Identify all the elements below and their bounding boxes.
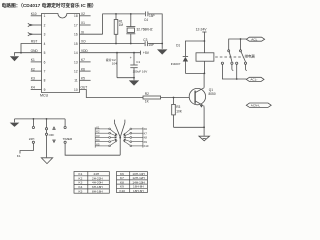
svg-text:18: 18	[74, 14, 78, 18]
relay K1 coil	[196, 53, 214, 61]
switch position 24H	[32, 119, 34, 127]
svg-text:K7: K7	[144, 131, 148, 135]
capacitor C2 branch	[116, 53, 118, 78]
pin 9 wire K4	[31, 89, 42, 91]
wire D1 branch bottom	[185, 72, 204, 74]
table 1	[74, 172, 109, 194]
node crystal top	[130, 13, 132, 15]
wire C2-C1 bottom	[117, 77, 134, 79]
svg-text:OFF: OFF	[49, 133, 55, 137]
svg-text:13: 13	[74, 60, 78, 64]
pin 2 wire (n.c.)	[31, 24, 42, 26]
svg-text:K10: K10	[144, 144, 149, 148]
svg-text:K2: K2	[96, 130, 100, 134]
svg-text:R2: R2	[145, 92, 149, 96]
input arrow pin2	[28, 23, 31, 26]
node base-R3	[173, 97, 175, 99]
ground (GND pin)	[10, 56, 19, 61]
svg-text:ACL: ACL	[251, 37, 257, 41]
svg-text:电路图：（CD4017 电源定时可变音乐 IC 图）: 电路图：（CD4017 电源定时可变音乐 IC 图）	[2, 2, 97, 9]
pin 3 wire (n.c.)	[31, 33, 42, 35]
contact terminals	[221, 62, 223, 64]
pin 1 wire K10	[31, 15, 42, 17]
svg-text:XI: XI	[81, 30, 84, 34]
svg-text:1M: 1M	[119, 23, 124, 27]
pin numbers right 18-10	[74, 14, 78, 92]
svg-text:18H-6H: 18H-6H	[133, 189, 144, 193]
node VDD-C1	[133, 52, 135, 54]
svg-text:C1: C1	[136, 60, 140, 64]
svg-text:D1: D1	[176, 43, 180, 47]
svg-text:K10: K10	[31, 12, 37, 16]
svg-text:K1: K1	[79, 172, 83, 176]
pin 4 wire RST	[21, 44, 42, 53]
svg-text:MCU: MCU	[40, 93, 49, 97]
svg-text:1K: 1K	[145, 100, 150, 104]
pin 10 wire OUT	[80, 90, 144, 98]
resistor R2	[143, 96, 161, 99]
capacitor C4	[145, 12, 148, 17]
diode D1 IN4007	[183, 56, 188, 58]
svg-text:K3: K3	[31, 77, 35, 81]
svg-text:C4: C4	[144, 18, 148, 22]
contact pole 2	[240, 39, 242, 50]
svg-text:16: 16	[74, 33, 78, 37]
svg-text:5: 5	[44, 51, 46, 55]
relay dashed link	[215, 56, 243, 58]
svg-text:K6: K6	[144, 127, 148, 131]
power +5V	[140, 51, 142, 55]
svg-text:K7: K7	[81, 58, 85, 62]
svg-text:15: 15	[74, 42, 78, 46]
svg-text:K8: K8	[144, 136, 148, 140]
svg-text:TIMER: TIMER	[63, 137, 73, 141]
svg-text:VDD: VDD	[81, 49, 88, 53]
svg-text:K1: K1	[31, 58, 35, 62]
svg-text:3: 3	[44, 33, 46, 37]
svg-text:RST: RST	[31, 40, 37, 44]
svg-text:K3: K3	[96, 134, 100, 138]
rotary right contacts K6-K10	[123, 127, 143, 147]
node mode OFF	[46, 118, 48, 120]
wire contact outputs	[222, 64, 246, 79]
wire D1 branch top	[185, 41, 204, 56]
svg-text:K2: K2	[31, 67, 35, 71]
transistor Q1 8050	[189, 88, 205, 104]
node C3-rail	[161, 43, 163, 45]
port ACN-L	[246, 103, 271, 107]
svg-text:C3: C3	[143, 38, 147, 42]
svg-text:X2: X2	[81, 12, 85, 16]
pin 17 wire X1	[80, 24, 91, 26]
node R1 top	[115, 13, 117, 15]
pin 13 wire K7	[80, 61, 91, 63]
svg-text:14: 14	[74, 51, 78, 55]
pin 18 wire X2	[80, 15, 91, 17]
wire top to ground rail	[148, 14, 162, 49]
hook terminal 2	[246, 64, 247, 70]
ground (decoupling)	[129, 80, 139, 85]
pin 8 wire K3	[31, 79, 42, 81]
svg-text:10K: 10K	[176, 109, 183, 113]
wire XI riser	[103, 14, 145, 34]
pin 14 wire VDD	[80, 52, 141, 54]
svg-text:100uF 16V: 100uF 16V	[133, 69, 148, 73]
svg-text:ACN-L: ACN-L	[251, 104, 261, 108]
switch position OFF	[46, 119, 48, 128]
pin 11 wire K5	[80, 79, 91, 81]
svg-text:+: +	[130, 56, 132, 60]
node VDD-C2	[116, 52, 118, 54]
svg-text:11: 11	[74, 79, 78, 83]
svg-text:K1: K1	[96, 125, 100, 129]
pin 12 wire K6	[80, 70, 91, 72]
ground (OFF position)	[41, 158, 52, 164]
svg-text:ACL-: ACL-	[250, 78, 257, 82]
svg-text:K5: K5	[79, 189, 83, 193]
svg-text:7: 7	[44, 70, 46, 74]
wire mode bus	[15, 118, 66, 120]
node relay top / D1	[204, 40, 206, 42]
node relay bottom	[204, 73, 206, 75]
wire collector up	[203, 73, 205, 87]
svg-text:2: 2	[44, 23, 46, 27]
svg-text:K3: K3	[79, 181, 83, 185]
svg-text:104: 104	[112, 62, 117, 66]
contact pole 1	[228, 50, 230, 52]
svg-text:15P: 15P	[149, 14, 155, 18]
ground (osc rail)	[157, 49, 167, 54]
pin 7 wire K2	[31, 70, 42, 72]
svg-text:12-24V: 12-24V	[196, 27, 208, 31]
ground (mode bus left)	[14, 119, 16, 123]
svg-text:XO: XO	[81, 40, 86, 44]
svg-text:K5: K5	[81, 77, 85, 81]
input arrow pin3	[28, 33, 31, 36]
crystal Y1 32.768KHZ	[130, 14, 132, 27]
rotary wiper arms	[114, 120, 120, 138]
pin 5 wire GND	[15, 53, 42, 56]
ground (emitter)	[199, 136, 210, 141]
port ACL	[246, 37, 264, 41]
resistor R3	[173, 98, 175, 105]
wire R2 to base	[161, 97, 190, 99]
hook terminal 1	[232, 64, 233, 70]
svg-text:K1: K1	[17, 154, 21, 158]
svg-text:OUT: OUT	[81, 86, 88, 90]
pin numbers left 1-9	[44, 14, 46, 92]
svg-text:17: 17	[74, 23, 78, 27]
svg-text:IN4007: IN4007	[171, 62, 181, 66]
svg-text:24H: 24H	[29, 137, 35, 141]
node C1 bottom	[133, 77, 135, 79]
pin 16 wire XI	[80, 33, 103, 35]
svg-text:10: 10	[74, 88, 78, 92]
svg-text:6: 6	[44, 60, 46, 64]
wire coil to collector	[203, 61, 205, 73]
resistor R1	[115, 14, 117, 20]
svg-text:+5V: +5V	[143, 51, 150, 55]
node RST-GND junction	[20, 52, 22, 54]
svg-text:9: 9	[44, 88, 46, 92]
svg-text:8: 8	[44, 79, 46, 83]
node crystal bottom	[130, 43, 132, 45]
wire to ground	[133, 78, 135, 81]
svg-text:24H: 24H	[94, 172, 100, 176]
svg-text:1: 1	[44, 14, 46, 18]
node pole2 top	[240, 38, 242, 40]
svg-text:4: 4	[44, 42, 46, 46]
svg-text:K6: K6	[81, 67, 85, 71]
IC U1 MCU body	[42, 14, 80, 93]
node contact bus	[236, 78, 238, 80]
svg-text:K9: K9	[144, 140, 148, 144]
wire contact top bus	[229, 39, 247, 50]
node R1 bottom	[115, 43, 117, 45]
svg-text:8050: 8050	[209, 92, 216, 96]
wire C3 to ground rail	[148, 43, 162, 45]
svg-text:32.768KHZ: 32.768KHZ	[137, 28, 153, 32]
svg-text:4H-20H: 4H-20H	[92, 181, 103, 185]
svg-text:K4: K4	[96, 138, 100, 142]
rotary left contacts K1-K5	[95, 127, 117, 147]
wire emitter down	[203, 105, 206, 135]
wire supply down	[203, 32, 205, 53]
port ACL-	[246, 77, 264, 81]
svg-text:GND: GND	[31, 49, 39, 53]
svg-text:K5: K5	[96, 142, 100, 146]
svg-text:X1: X1	[81, 21, 85, 25]
svg-text:K4: K4	[31, 86, 35, 90]
wire R3 to emitter	[174, 126, 205, 128]
svg-text:K10: K10	[120, 189, 126, 193]
svg-text:8H-16H: 8H-16H	[92, 189, 103, 193]
capacitor C1 electrolytic	[133, 53, 135, 65]
pin 6 wire K1	[31, 61, 42, 63]
rotary switch common	[119, 138, 121, 155]
node emitter junction	[203, 126, 205, 128]
table 2	[117, 172, 148, 193]
pin 15 wire XO	[80, 43, 145, 45]
svg-text:12: 12	[74, 70, 78, 74]
switch position TIMER	[64, 119, 66, 127]
capacitor C3	[145, 41, 148, 46]
svg-text:继电器: 继电器	[245, 54, 256, 59]
node mode 24H	[33, 118, 35, 120]
